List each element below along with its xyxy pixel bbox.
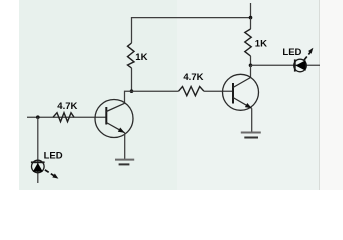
wire: LED1 branch (vertical) bbox=[37, 117, 39, 183]
transistor Q1 (left NPN) bbox=[95, 100, 133, 138]
wire: Q2 emitter to ground bbox=[251, 108, 253, 132]
arrow: D2 light rays bbox=[304, 48, 313, 60]
node: junction R3 / LED wire / Q2 collector bbox=[249, 64, 253, 68]
svg-text:1K: 1K bbox=[135, 52, 147, 63]
wire: R1 bottom lead bbox=[131, 68, 133, 91]
ground (under Q2) bbox=[241, 133, 261, 138]
svg-text:1K: 1K bbox=[255, 39, 267, 50]
wire: V+ supply stub bbox=[250, 3, 252, 18]
resistor R1 1K (left, vertical) bbox=[128, 43, 135, 68]
resistor R2 4.7K (middle, horizontal) bbox=[179, 87, 204, 96]
wire: R3 bottom lead bbox=[250, 56, 252, 65]
wire: to LED2 bbox=[251, 64, 321, 66]
svg-text:4.7K: 4.7K bbox=[183, 72, 203, 83]
node: junction top rail / R3 bbox=[249, 16, 253, 20]
transistor Q2 (right NPN) bbox=[223, 74, 259, 110]
svg-text:LED: LED bbox=[44, 150, 63, 161]
wire: R2 to Q2 base bbox=[204, 90, 233, 92]
node: junction base rail / LED1 branch bbox=[36, 115, 40, 119]
wire: left base rail bbox=[27, 116, 106, 118]
arrow: D1 light rays bbox=[45, 170, 59, 179]
resistor R3 1K (right, vertical) bbox=[245, 29, 251, 56]
wire: Q1 collector riser and middle rail left part bbox=[125, 91, 179, 103]
node: junction R1 / middle rail bbox=[130, 89, 134, 93]
wire: Q1 emitter to ground bbox=[124, 133, 126, 160]
resistor R4 4.7K (left, horizontal) bbox=[53, 113, 74, 122]
wire: Q2 collector riser bbox=[250, 65, 252, 77]
ground (under Q1) bbox=[115, 160, 134, 165]
LED D1 (bottom left) bbox=[31, 160, 45, 173]
wire: top rail bbox=[132, 18, 251, 43]
wire: R3 top lead bbox=[250, 18, 252, 29]
LED D2 (right) bbox=[294, 59, 307, 72]
svg-text:4.7K: 4.7K bbox=[57, 101, 77, 112]
svg-text:LED: LED bbox=[282, 47, 301, 58]
